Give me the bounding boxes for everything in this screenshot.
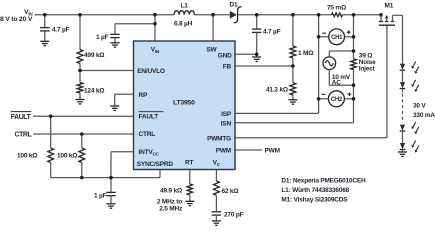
resistor 49.9k RT: [157, 170, 193, 213]
wire VIN pin branch: [115, 15, 155, 41]
svg-text:1 µF: 1 µF: [94, 193, 107, 200]
svg-text:GND: GND: [218, 53, 232, 60]
node ISN rail right: [235, 15, 354, 123]
wire GND pin: [235, 53, 257, 55]
source 10mV AC: [323, 51, 354, 87]
capacitor 4.7uF output: [252, 15, 281, 57]
pin PWMTG label: [207, 135, 231, 142]
label LED output: [413, 103, 435, 119]
pin RP label: [139, 92, 148, 99]
svg-text:PWM: PWM: [216, 148, 231, 155]
wire INTVCC: [111, 152, 134, 193]
resistor 100k right: [57, 134, 85, 178]
svg-text:1 MΩ: 1 MΩ: [298, 50, 313, 57]
svg-text:L1: L1: [181, 3, 189, 10]
resistor 41.2k: [266, 66, 296, 100]
transistor M1 PMOS: [379, 3, 403, 26]
svg-text:D1: Nexperia PMEG6010CEH: D1: Nexperia PMEG6010CEH: [281, 178, 366, 185]
svg-text:CH2: CH2: [331, 97, 343, 103]
svg-text:Inject: Inject: [359, 65, 376, 72]
LED D3: [400, 80, 419, 93]
svg-text:M1: M1: [385, 3, 394, 10]
capacitor 4.7uF input: [40, 15, 70, 42]
svg-text:4.7 µF: 4.7 µF: [263, 28, 281, 35]
svg-text:30 V: 30 V: [413, 103, 426, 110]
scope CH1: [319, 29, 354, 45]
wire PWM stub: [235, 147, 280, 154]
LED D5: [400, 141, 419, 153]
svg-text:LT3950: LT3950: [173, 99, 195, 106]
svg-text:RT: RT: [185, 159, 193, 166]
pin PWM label: [216, 148, 231, 155]
svg-text:PWM: PWM: [265, 147, 280, 154]
svg-text:AC: AC: [332, 80, 341, 87]
pin GND label: [218, 53, 232, 60]
svg-text:4.7 µF: 4.7 µF: [52, 26, 70, 33]
svg-text:1 µF: 1 µF: [96, 34, 109, 41]
pin VIN label: [151, 46, 160, 54]
resistor 1M: [290, 15, 313, 66]
ground RP pin: [110, 94, 133, 110]
svg-text:M1: Vishay Si2309CDS: M1: Vishay Si2309CDS: [281, 197, 348, 204]
resistor 499k: [77, 15, 104, 71]
wire PWMTG to M1 gate: [235, 25, 387, 138]
svg-text:8 V to 20 V: 8 V to 20 V: [0, 16, 33, 23]
pin INTVCC label: [139, 149, 160, 157]
svg-text:ISN: ISN: [221, 121, 232, 128]
pin EN/UVLO label: [137, 68, 165, 75]
label VIN input: [0, 9, 33, 23]
svg-text:PWMTG: PWMTG: [207, 135, 231, 142]
svg-text:L1: Würth 74438336068: L1: Würth 74438336068: [281, 187, 349, 194]
svg-text:SW: SW: [206, 47, 217, 54]
resistor 100k left: [17, 116, 54, 177]
pin SW label: [206, 47, 217, 54]
LED D2: [400, 62, 419, 83]
capacitor 1uF bottom: [94, 192, 116, 203]
ground RT: [185, 201, 194, 205]
ground GND pin: [252, 57, 261, 61]
svg-text:RP: RP: [139, 92, 148, 99]
ground 1uF bottom: [107, 204, 116, 208]
ground 124k: [76, 100, 85, 104]
LED D4: [400, 122, 419, 143]
capacitor 270pF: [212, 211, 244, 221]
label parts list: [281, 178, 366, 204]
pin FAULT label: [139, 112, 164, 121]
ground input cap: [40, 41, 49, 45]
svg-text:CTRL: CTRL: [139, 131, 156, 138]
svg-text:FAULT: FAULT: [11, 114, 32, 121]
wire FB pin: [235, 65, 293, 67]
wire bottom rail: [51, 170, 160, 178]
node ISP rail left: [235, 15, 319, 114]
svg-text:ISP: ISP: [221, 111, 232, 118]
ground 1uF top: [111, 43, 120, 47]
ground 270pF: [212, 221, 221, 225]
capacitor 1uF top: [96, 34, 120, 43]
wire CTRL: [33, 133, 134, 135]
pin ISP label: [221, 111, 232, 118]
IC U1 LT3950: [134, 41, 236, 170]
svg-text:EN/UVLO: EN/UVLO: [137, 68, 165, 75]
svg-text:100 kΩ: 100 kΩ: [57, 152, 77, 159]
resistor 75m sense: [327, 5, 346, 17]
LED string wire top: [402, 15, 404, 64]
resistor 39 noise inject: [351, 53, 376, 73]
svg-text:100 kΩ: 100 kΩ: [17, 152, 37, 159]
svg-text:75 mΩ: 75 mΩ: [327, 5, 346, 12]
wire SW pin: [212, 15, 214, 41]
svg-text:330 mA: 330 mA: [413, 112, 435, 119]
wire dashed LED string: [402, 94, 404, 123]
svg-text:FAULT: FAULT: [139, 114, 159, 121]
ground LED string: [398, 152, 407, 156]
pin CTRL label: [139, 131, 156, 138]
svg-text:FB: FB: [223, 64, 232, 71]
svg-text:41.2 kΩ: 41.2 kΩ: [266, 87, 288, 94]
ground 41.2k: [288, 100, 297, 104]
label FAULT net: [11, 112, 32, 121]
svg-text:49.9 kΩ: 49.9 kΩ: [160, 188, 182, 195]
resistor 124k: [77, 71, 104, 100]
svg-text:SYNC/SPRD: SYNC/SPRD: [137, 161, 174, 168]
wire VIN top rail: [35, 14, 382, 16]
pin RT label: [185, 159, 193, 166]
wire EN/UVLO: [80, 70, 134, 72]
scope CH2: [319, 91, 354, 107]
svg-text:2.5 MHz: 2.5 MHz: [159, 206, 183, 213]
wire FAULT: [33, 115, 134, 117]
pin SYNC/SPRD label: [137, 161, 174, 168]
label CTRL net: [15, 132, 32, 139]
resistor 62k VC: [214, 170, 239, 212]
svg-text:499 kΩ: 499 kΩ: [84, 52, 104, 59]
inductor L1: [174, 3, 194, 28]
diode D1 schottky: [230, 1, 242, 23]
pin FB label: [223, 64, 232, 71]
svg-text:D1: D1: [230, 1, 238, 8]
svg-text:62 kΩ: 62 kΩ: [222, 188, 239, 195]
svg-text:6.8 µH: 6.8 µH: [174, 20, 193, 27]
pin ISN label: [221, 121, 232, 128]
svg-text:2 MHz to: 2 MHz to: [157, 198, 182, 205]
svg-text:270 pF: 270 pF: [224, 211, 244, 218]
svg-text:CTRL: CTRL: [15, 132, 32, 139]
svg-text:124 kΩ: 124 kΩ: [84, 88, 104, 95]
svg-text:CH1: CH1: [331, 35, 343, 41]
pin VC label: [213, 160, 221, 168]
